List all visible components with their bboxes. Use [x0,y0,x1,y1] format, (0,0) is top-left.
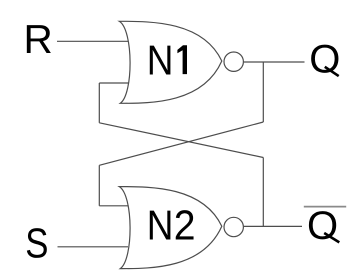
wire stub N2 upper input [99,205,128,207]
NOR gate N2 [119,187,222,269]
svg-text:S: S [25,220,48,267]
wire diagonal N1 input to Qbar node [99,123,263,158]
svg-text:N: N [147,202,174,249]
inverter bubble on N2 output [224,217,243,236]
wire N1 output to Q [244,61,305,63]
label Q (tail) [325,67,339,76]
svg-text:R: R [24,16,53,62]
wire left vertical upper [98,83,100,123]
inverter bubble on N1 output [224,52,243,71]
label Qbar (tail) [324,233,339,242]
wire N2 output to Qbar [244,225,302,227]
svg-text:N: N [147,36,174,83]
wire left vertical lower [98,165,100,206]
wire S input [58,246,129,248]
svg-text:O: O [307,204,338,248]
wire stub N1 lower input [99,82,128,84]
label N1 digit 1 [177,45,187,74]
overline of Qbar [304,206,346,208]
svg-text:2: 2 [174,202,196,249]
wire right vertical lower [262,158,264,227]
wire R input [57,40,129,42]
wire diagonal Q to N2 input [99,122,263,165]
NOR gate N1 [119,21,222,103]
wire junction vertical from Q node [262,62,264,122]
